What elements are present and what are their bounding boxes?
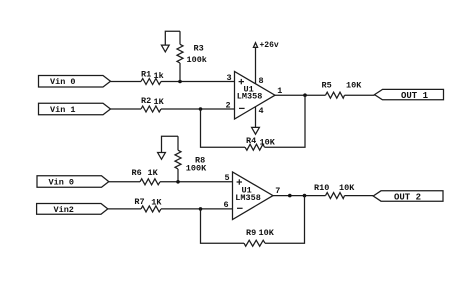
resistor R3 (vertical): [177, 31, 183, 81]
svg-text:10K: 10K: [260, 137, 276, 147]
label R4 10K: [246, 136, 276, 148]
label R3 100k: [187, 44, 207, 65]
wire output to R5: [275, 94, 326, 96]
svg-text:5: 5: [225, 173, 230, 183]
power symbol +26v: [253, 41, 279, 50]
svg-text:10K: 10K: [339, 183, 355, 193]
wire feedback down (top): [265, 95, 306, 147]
svg-text:100k: 100k: [187, 55, 207, 65]
op-amp U1B LM358: [233, 172, 274, 220]
node OUT 2 (output flag): [373, 191, 443, 203]
junction feedback tap (bottom): [199, 207, 203, 211]
resistor R5: [326, 92, 345, 98]
node Vin 1 (input flag): [39, 103, 111, 115]
resistor R8 (vertical): [175, 136, 181, 182]
resistor R7: [141, 206, 161, 212]
resistor R9: [244, 240, 265, 246]
node OUT 1 (output flag): [375, 89, 444, 101]
wire R7 to pin 6: [161, 208, 233, 210]
svg-text:R6: R6: [132, 168, 142, 178]
svg-text:1K: 1K: [148, 168, 159, 178]
svg-text:1k: 1k: [154, 71, 164, 81]
junction output stub (bottom): [288, 194, 292, 198]
wire R1 to pin 3: [161, 81, 235, 83]
junction at R3 bottom: [178, 80, 182, 84]
resistor R6: [140, 179, 160, 185]
wire Vin0 to R6: [109, 181, 140, 183]
svg-text:1K: 1K: [154, 97, 165, 107]
label R5 10K: [322, 81, 363, 91]
junction output (bottom): [303, 194, 307, 198]
svg-text:R7: R7: [134, 197, 144, 207]
op-amp U1A LM358: [235, 72, 276, 120]
label R2 1K: [141, 96, 165, 107]
wire pin 4 down: [255, 107, 257, 128]
junction output (top): [303, 93, 307, 97]
port arrow (down) at R3: [161, 45, 169, 52]
wire R10 to OUT 2: [345, 195, 374, 197]
wire Vin1 to R2: [111, 108, 142, 110]
svg-text:1: 1: [277, 86, 282, 96]
svg-text:R2: R2: [141, 96, 151, 106]
svg-text:+26v: +26v: [260, 41, 279, 50]
wire R6 to pin 5: [160, 181, 233, 183]
svg-text:Vin 0: Vin 0: [50, 77, 76, 87]
svg-text:2: 2: [226, 101, 231, 111]
node Vin 0 (top input flag): [39, 76, 111, 88]
resistor R2: [141, 106, 161, 112]
svg-text:R1: R1: [141, 70, 151, 80]
port arrow (down) at R8: [158, 153, 166, 160]
svg-text:7: 7: [275, 186, 280, 196]
junction at R8 bottom: [176, 180, 180, 184]
label R6 1K: [132, 168, 159, 178]
svg-text:LM358: LM358: [235, 193, 261, 203]
node Vin 0 (bottom input flag): [37, 176, 109, 188]
svg-text:1K: 1K: [151, 197, 162, 207]
wire Vin2 to R7: [108, 208, 141, 210]
svg-text:6: 6: [224, 200, 229, 210]
svg-text:Vin 0: Vin 0: [49, 178, 75, 188]
wire feedback down (bottom): [265, 196, 305, 244]
svg-text:8: 8: [259, 76, 264, 86]
wire pin 8 to +26v: [255, 47, 257, 83]
port arrow (down) at pin 4: [252, 127, 260, 134]
wire R3 top hook: [165, 31, 180, 45]
resistor R4: [245, 144, 265, 150]
svg-text:R4: R4: [246, 136, 256, 146]
svg-text:R3: R3: [194, 44, 204, 54]
label R9 10K: [246, 228, 275, 238]
junction feedback tap (top): [199, 107, 203, 111]
wire Vin0 to R1: [111, 81, 142, 83]
wire output to R10: [273, 195, 326, 197]
svg-text:4: 4: [259, 106, 264, 116]
svg-text:OUT 2: OUT 2: [394, 192, 421, 202]
label R1 1k: [141, 70, 164, 81]
svg-text:3: 3: [227, 73, 232, 83]
wire R5 to OUT 1: [345, 94, 375, 96]
svg-text:Vin 1: Vin 1: [50, 105, 76, 115]
svg-text:10K: 10K: [259, 228, 275, 238]
wire R8 top hook: [162, 136, 179, 152]
label R10 10K: [314, 183, 355, 193]
svg-text:Vin2: Vin2: [54, 205, 74, 215]
wire feedback left to pin 2 node: [201, 109, 246, 147]
svg-text:R10: R10: [314, 183, 329, 193]
label R8 100K: [186, 155, 207, 173]
resistor R1: [141, 79, 161, 85]
svg-text:R9: R9: [246, 228, 256, 238]
node Vin2 (input flag): [37, 204, 108, 215]
svg-text:R5: R5: [322, 81, 332, 91]
wire feedback left to pin 6 node: [201, 209, 245, 243]
svg-text:10K: 10K: [346, 81, 362, 91]
resistor R10: [326, 193, 345, 199]
svg-text:OUT 1: OUT 1: [401, 91, 429, 101]
svg-text:LM358: LM358: [237, 92, 263, 102]
wire R2 to pin 2: [161, 108, 235, 110]
label R7 1K: [134, 197, 162, 207]
svg-text:100K: 100K: [186, 164, 207, 174]
